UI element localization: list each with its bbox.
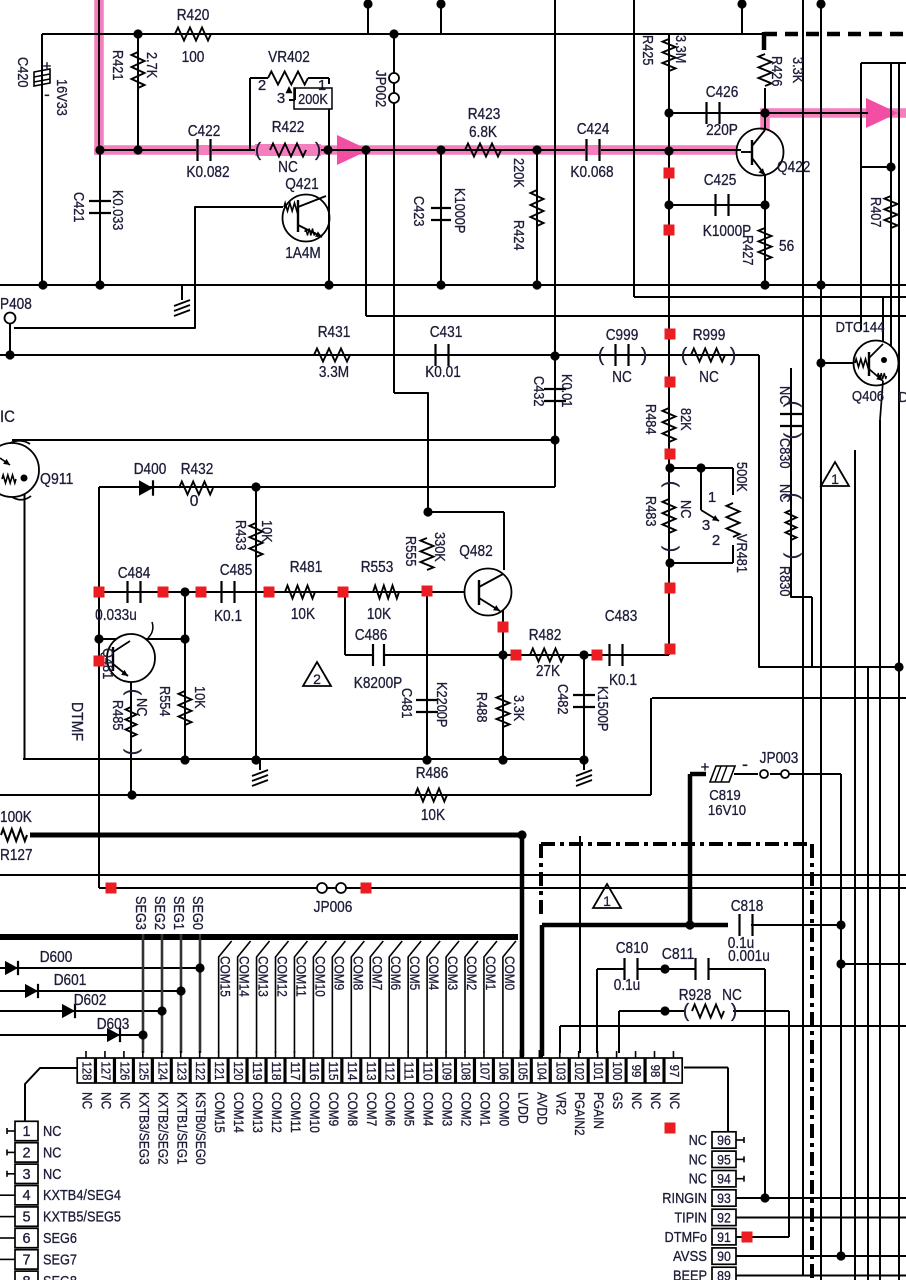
- svg-text:2: 2: [258, 77, 266, 94]
- svg-text:D: D: [898, 389, 906, 406]
- svg-text:89: 89: [717, 1267, 731, 1280]
- svg-text:90: 90: [717, 1248, 731, 1264]
- svg-text:125: 125: [136, 1061, 151, 1080]
- svg-text:R427: R427: [739, 235, 755, 266]
- svg-text:K2200P: K2200P: [433, 682, 449, 727]
- svg-text:SEG6: SEG6: [43, 1231, 77, 1247]
- svg-text:112: 112: [383, 1061, 398, 1080]
- svg-text:C486: C486: [355, 627, 388, 644]
- svg-text:NC: NC: [677, 500, 693, 518]
- svg-text:COM10: COM10: [307, 1092, 322, 1133]
- svg-text:6: 6: [22, 1231, 30, 1247]
- svg-text:COM0: COM0: [496, 1092, 511, 1126]
- svg-text:7: 7: [22, 1252, 30, 1268]
- svg-text:SEG7: SEG7: [43, 1252, 77, 1268]
- svg-text:): ): [641, 345, 647, 366]
- svg-text:C421: C421: [70, 192, 86, 223]
- svg-text:(: (: [255, 140, 262, 161]
- svg-text:SEG1: SEG1: [170, 896, 186, 930]
- svg-text:108: 108: [459, 1061, 474, 1080]
- svg-text:1: 1: [708, 489, 716, 506]
- svg-text:124: 124: [155, 1061, 170, 1080]
- svg-text:110: 110: [421, 1061, 436, 1080]
- svg-text:C423: C423: [410, 196, 426, 227]
- svg-text:93: 93: [717, 1190, 731, 1206]
- svg-text:C481: C481: [398, 688, 414, 719]
- svg-text:-: -: [44, 85, 50, 104]
- svg-text:NC: NC: [667, 1092, 682, 1109]
- svg-text:R426: R426: [768, 56, 784, 87]
- svg-text:0.001u: 0.001u: [728, 948, 770, 965]
- svg-text:127: 127: [98, 1061, 113, 1080]
- svg-text:99: 99: [629, 1065, 644, 1078]
- svg-text:NC: NC: [689, 1133, 707, 1149]
- svg-text:NC: NC: [133, 698, 149, 716]
- svg-text:NC: NC: [722, 987, 742, 1004]
- svg-text:K1000P: K1000P: [451, 188, 467, 233]
- svg-text:+: +: [43, 58, 52, 75]
- svg-text:10K: 10K: [258, 520, 274, 543]
- svg-text:K1500P: K1500P: [594, 686, 610, 731]
- svg-text:JP003: JP003: [760, 750, 799, 767]
- svg-text:SEG3: SEG3: [132, 896, 148, 930]
- svg-text:NC: NC: [776, 386, 792, 404]
- svg-text:10K: 10K: [291, 606, 316, 623]
- svg-text:92: 92: [717, 1209, 731, 1225]
- svg-text:COM13: COM13: [256, 956, 271, 997]
- svg-text:NC: NC: [43, 1167, 61, 1183]
- svg-text:NC: NC: [43, 1145, 61, 1161]
- svg-text:COM8: COM8: [345, 1092, 360, 1126]
- svg-text:(: (: [681, 345, 688, 366]
- svg-text:123: 123: [174, 1061, 189, 1080]
- svg-text:1: 1: [831, 471, 839, 487]
- svg-text:Q911: Q911: [40, 471, 73, 488]
- svg-text:C485: C485: [220, 562, 253, 579]
- svg-text:98: 98: [648, 1065, 663, 1078]
- svg-text:500K: 500K: [733, 462, 749, 492]
- svg-text:NC: NC: [43, 1124, 61, 1140]
- svg-text:JP006: JP006: [314, 899, 353, 916]
- svg-text:NC: NC: [117, 1092, 132, 1109]
- svg-text:27K: 27K: [536, 663, 561, 680]
- svg-text:R423: R423: [468, 106, 501, 123]
- svg-text:82K: 82K: [677, 408, 693, 431]
- svg-text:96: 96: [717, 1132, 731, 1148]
- svg-text:1: 1: [22, 1124, 30, 1140]
- svg-text:100: 100: [610, 1061, 625, 1080]
- svg-text:3.3M: 3.3M: [672, 35, 688, 63]
- svg-text:C483: C483: [605, 608, 638, 625]
- svg-text:D603: D603: [97, 1016, 130, 1033]
- svg-text:NC: NC: [689, 1152, 707, 1168]
- svg-text:C422: C422: [188, 123, 221, 140]
- svg-text:117: 117: [288, 1061, 303, 1080]
- svg-text:AVDD: AVDD: [534, 1092, 549, 1125]
- svg-text:91: 91: [717, 1229, 731, 1245]
- svg-text:0.1u: 0.1u: [614, 977, 641, 994]
- svg-text:R433: R433: [232, 520, 248, 551]
- svg-text:COM1: COM1: [483, 956, 498, 990]
- svg-text:103: 103: [553, 1061, 568, 1080]
- svg-text:R484: R484: [642, 404, 658, 435]
- svg-text:10K: 10K: [421, 807, 446, 824]
- svg-text:K8200P: K8200P: [354, 675, 403, 692]
- svg-text:16V33: 16V33: [53, 79, 69, 116]
- svg-text:97: 97: [667, 1065, 682, 1078]
- svg-text:100: 100: [182, 49, 205, 66]
- svg-text:): ): [731, 1001, 737, 1022]
- svg-text:R482: R482: [529, 627, 562, 644]
- svg-text:P408: P408: [0, 296, 32, 313]
- svg-text:GS: GS: [610, 1092, 625, 1109]
- svg-text:+: +: [701, 759, 710, 776]
- svg-text:COM12: COM12: [275, 956, 290, 997]
- svg-text:COM6: COM6: [383, 1092, 398, 1126]
- svg-text:R127: R127: [0, 847, 33, 864]
- svg-text:COM9: COM9: [331, 956, 346, 990]
- svg-text:95: 95: [717, 1151, 731, 1167]
- svg-text:2.7K: 2.7K: [143, 52, 159, 78]
- svg-text:R830: R830: [776, 566, 792, 597]
- svg-text:KSTB0/SEG0: KSTB0/SEG0: [193, 1092, 208, 1165]
- svg-text:NC: NC: [689, 1172, 707, 1188]
- svg-text:NC: NC: [98, 1092, 113, 1109]
- svg-text:1: 1: [603, 893, 611, 909]
- svg-text:DTMF: DTMF: [68, 702, 85, 741]
- svg-text:C425: C425: [704, 172, 737, 189]
- svg-text:TIPIN: TIPIN: [674, 1210, 707, 1226]
- svg-text:KXTB1/SEG1: KXTB1/SEG1: [174, 1092, 189, 1165]
- svg-text:SEG0: SEG0: [189, 896, 205, 930]
- svg-text:16V10: 16V10: [708, 802, 746, 819]
- svg-text:111: 111: [402, 1061, 417, 1080]
- svg-text:KXTB5/SEG5: KXTB5/SEG5: [43, 1210, 121, 1226]
- svg-text:200K: 200K: [298, 92, 328, 108]
- svg-text:R553: R553: [361, 559, 394, 576]
- svg-text:C426: C426: [706, 84, 739, 101]
- svg-text:C432: C432: [530, 376, 546, 407]
- svg-text:113: 113: [364, 1061, 379, 1080]
- svg-text:VR402: VR402: [268, 49, 310, 66]
- svg-text:KXTB3/SEG3: KXTB3/SEG3: [136, 1092, 151, 1165]
- svg-text:DTC144: DTC144: [835, 319, 884, 336]
- svg-text:R483: R483: [642, 496, 658, 527]
- svg-text:NC: NC: [648, 1092, 663, 1109]
- svg-text:R425: R425: [639, 35, 655, 66]
- svg-text:109: 109: [440, 1061, 455, 1080]
- svg-text:K0.01: K0.01: [558, 374, 574, 407]
- svg-text:D602: D602: [74, 992, 107, 1009]
- svg-text:PGAIN: PGAIN: [591, 1092, 606, 1129]
- svg-text:(: (: [661, 481, 682, 488]
- svg-text:COM11: COM11: [288, 1092, 303, 1133]
- svg-text:VR2: VR2: [553, 1092, 568, 1115]
- svg-text:): ): [123, 749, 144, 755]
- svg-text:2: 2: [712, 532, 720, 549]
- svg-text:R432: R432: [181, 461, 214, 478]
- svg-text:COM4: COM4: [421, 1092, 436, 1127]
- svg-text:(: (: [683, 1001, 690, 1022]
- svg-text:C482: C482: [554, 684, 570, 715]
- svg-text:(: (: [598, 345, 605, 366]
- svg-text:SEG8: SEG8: [43, 1274, 77, 1280]
- svg-text:R488: R488: [473, 692, 489, 723]
- svg-text:R481: R481: [290, 559, 323, 576]
- svg-text:NC: NC: [629, 1092, 644, 1109]
- svg-text:COM2: COM2: [464, 956, 479, 990]
- svg-text:3.3M: 3.3M: [319, 364, 349, 381]
- svg-text:100K: 100K: [0, 809, 32, 826]
- svg-text:COM1: COM1: [477, 1092, 492, 1126]
- svg-text:K0.082: K0.082: [186, 164, 229, 181]
- svg-text:118: 118: [269, 1061, 284, 1080]
- svg-text:RINGIN: RINGIN: [662, 1191, 707, 1207]
- svg-text:R420: R420: [177, 7, 210, 24]
- svg-text:COM0: COM0: [502, 956, 517, 990]
- svg-text:Q482: Q482: [459, 543, 492, 560]
- svg-text:10K: 10K: [367, 606, 392, 623]
- svg-text:R486: R486: [416, 765, 449, 782]
- svg-text:COM5: COM5: [402, 1092, 417, 1126]
- svg-text:SEG2: SEG2: [151, 896, 167, 930]
- svg-text:COM15: COM15: [212, 1092, 227, 1133]
- svg-text:119: 119: [250, 1061, 265, 1080]
- svg-text:COM3: COM3: [445, 956, 460, 990]
- svg-text:R422: R422: [272, 119, 305, 136]
- svg-text:3: 3: [22, 1167, 30, 1183]
- svg-text:COM11: COM11: [293, 956, 308, 997]
- svg-text:2: 2: [22, 1145, 30, 1161]
- svg-text:Q421: Q421: [285, 176, 318, 193]
- svg-text:K0.068: K0.068: [570, 164, 613, 181]
- svg-text:COM3: COM3: [440, 1092, 455, 1126]
- svg-text:10K: 10K: [191, 686, 207, 709]
- svg-text:K0.1: K0.1: [609, 672, 637, 689]
- svg-text:105: 105: [515, 1061, 530, 1080]
- svg-text:D400: D400: [134, 461, 167, 478]
- svg-text:C999: C999: [606, 327, 639, 344]
- svg-text:114: 114: [345, 1061, 360, 1080]
- svg-text:2: 2: [313, 671, 321, 687]
- svg-text:VR481: VR481: [733, 534, 749, 573]
- svg-text:COM6: COM6: [388, 956, 403, 990]
- svg-text:): ): [730, 345, 736, 366]
- svg-text:220P: 220P: [706, 122, 738, 139]
- svg-text:3.3K: 3.3K: [510, 695, 526, 721]
- svg-text:C431: C431: [430, 324, 463, 341]
- svg-text:Q406: Q406: [852, 388, 884, 405]
- svg-text:128: 128: [80, 1061, 95, 1080]
- svg-text:122: 122: [193, 1061, 208, 1080]
- svg-text:COM8: COM8: [350, 956, 365, 990]
- svg-text:COM14: COM14: [237, 956, 252, 997]
- svg-text:115: 115: [326, 1061, 341, 1080]
- svg-text:COM10: COM10: [312, 956, 327, 997]
- svg-text:3.3K: 3.3K: [789, 57, 805, 83]
- svg-text:K0.1: K0.1: [214, 608, 242, 625]
- svg-text:KXTB2/SEG2: KXTB2/SEG2: [155, 1092, 170, 1165]
- svg-text:R554: R554: [156, 686, 172, 717]
- svg-text:JP002: JP002: [372, 70, 389, 107]
- svg-text:106: 106: [496, 1061, 511, 1080]
- svg-text:C830: C830: [776, 438, 792, 469]
- svg-text:DTMFo: DTMFo: [665, 1230, 708, 1246]
- svg-text:120: 120: [231, 1061, 246, 1080]
- svg-text:3: 3: [277, 90, 285, 107]
- svg-text:): ): [661, 546, 682, 552]
- svg-text:0.033u: 0.033u: [95, 607, 137, 624]
- svg-text:C810: C810: [616, 940, 649, 957]
- svg-text:COM13: COM13: [250, 1092, 265, 1133]
- svg-text:NC: NC: [776, 484, 792, 502]
- svg-text:COM2: COM2: [459, 1092, 474, 1126]
- svg-text:C420: C420: [14, 57, 30, 88]
- svg-text:): ): [315, 140, 321, 161]
- svg-text:126: 126: [117, 1061, 132, 1080]
- svg-text:COM7: COM7: [369, 956, 384, 990]
- svg-text:R421: R421: [109, 50, 125, 81]
- svg-text:NC: NC: [699, 369, 719, 386]
- svg-text:R424: R424: [510, 220, 526, 251]
- svg-text:R407: R407: [867, 197, 883, 228]
- svg-text:5: 5: [22, 1210, 30, 1226]
- svg-text:NC: NC: [278, 159, 298, 176]
- svg-text:PGAIN2: PGAIN2: [572, 1092, 587, 1136]
- svg-text:C484: C484: [118, 565, 151, 582]
- svg-text:220K: 220K: [510, 158, 526, 188]
- svg-text:COM15: COM15: [218, 956, 233, 997]
- svg-text:LVDD: LVDD: [515, 1092, 530, 1124]
- svg-text:NC: NC: [612, 369, 632, 386]
- svg-text:COM12: COM12: [269, 1092, 284, 1133]
- svg-text:R485: R485: [109, 700, 125, 731]
- svg-text:1A4M: 1A4M: [285, 245, 321, 262]
- svg-text:C424: C424: [577, 121, 610, 138]
- svg-text:D600: D600: [40, 949, 73, 966]
- svg-text:R999: R999: [693, 327, 726, 344]
- svg-text:(: (: [123, 689, 144, 696]
- svg-text:330K: 330K: [431, 532, 447, 562]
- svg-text:K0.033: K0.033: [109, 190, 125, 230]
- svg-text:3: 3: [702, 517, 710, 534]
- svg-text:AVSS: AVSS: [673, 1249, 707, 1265]
- svg-text:4: 4: [22, 1188, 30, 1204]
- svg-text:D601: D601: [54, 972, 87, 989]
- svg-text:107: 107: [477, 1061, 492, 1080]
- svg-text:KXTB4/SEG4: KXTB4/SEG4: [43, 1188, 121, 1204]
- svg-text:Q422: Q422: [777, 159, 810, 176]
- svg-text:R555: R555: [402, 536, 418, 567]
- svg-text:COM4: COM4: [426, 956, 441, 991]
- svg-text:COM7: COM7: [364, 1092, 379, 1126]
- svg-text:COM14: COM14: [231, 1092, 246, 1133]
- svg-text:8: 8: [22, 1274, 30, 1280]
- svg-text:K0.01: K0.01: [425, 364, 461, 381]
- svg-text:121: 121: [212, 1061, 227, 1080]
- svg-text:6.8K: 6.8K: [469, 124, 498, 141]
- svg-text:BEEP: BEEP: [673, 1268, 707, 1280]
- svg-text:C818: C818: [731, 898, 764, 915]
- svg-text:COM5: COM5: [407, 956, 422, 990]
- svg-text:C811: C811: [662, 946, 695, 963]
- svg-text:R431: R431: [318, 324, 351, 341]
- svg-text:102: 102: [572, 1061, 587, 1080]
- svg-text:R928: R928: [679, 987, 712, 1004]
- svg-text:IC: IC: [0, 407, 15, 426]
- svg-text:0: 0: [190, 493, 199, 510]
- svg-text:): ): [783, 553, 804, 559]
- svg-text:COM9: COM9: [326, 1092, 341, 1126]
- svg-text:NC: NC: [80, 1092, 95, 1109]
- svg-text:101: 101: [591, 1061, 606, 1080]
- svg-text:116: 116: [307, 1061, 322, 1080]
- svg-text:94: 94: [717, 1171, 731, 1187]
- svg-text:104: 104: [534, 1061, 549, 1080]
- svg-text:-: -: [742, 754, 748, 774]
- svg-text:56: 56: [779, 238, 794, 255]
